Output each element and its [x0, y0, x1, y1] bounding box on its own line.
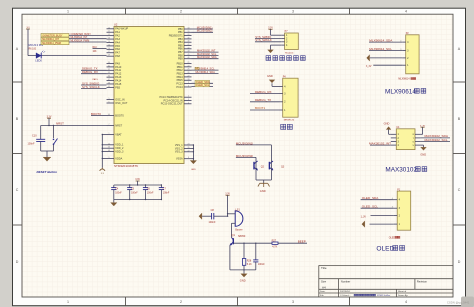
svg-text:Revision: Revision — [417, 280, 428, 284]
svg-text:15: 15 — [108, 44, 110, 46]
svg-text:47: 47 — [188, 150, 190, 152]
svg-text:SYS_SWCLK: SYS_SWCLK — [255, 38, 272, 42]
svg-text:OLED_SCL: OLED_SCL — [196, 83, 210, 87]
svg-text:RESET Button: RESET Button — [37, 170, 58, 174]
svg-text:13: 13 — [108, 38, 110, 40]
svg-text:MLX90614_INT: MLX90614_INT — [42, 38, 59, 41]
svg-text:4: 4 — [405, 300, 407, 304]
svg-text:12: 12 — [108, 34, 110, 36]
svg-text:4: 4 — [188, 102, 189, 104]
svg-text:MLX90614: MLX90614 — [398, 79, 410, 81]
svg-text:17: 17 — [108, 51, 110, 53]
svg-text:R27: R27 — [272, 239, 277, 242]
svg-text:Buzzer: Buzzer — [235, 228, 242, 231]
svg-text:43: 43 — [188, 51, 190, 53]
svg-text:MLX90614_PWM: MLX90614_PWM — [71, 39, 90, 42]
svg-text:37: 37 — [108, 79, 110, 81]
svg-text:OLED_SCL: OLED_SCL — [362, 205, 378, 209]
svg-text:PA8: PA8 — [115, 55, 120, 58]
svg-text:2: 2 — [188, 96, 189, 98]
svg-text:44: 44 — [108, 114, 110, 116]
svg-text:10: 10 — [108, 27, 110, 29]
svg-text:11: 11 — [108, 31, 110, 33]
svg-text:16: 16 — [108, 48, 110, 50]
svg-text:MLX90614_SCL: MLX90614_SCL — [369, 47, 392, 51]
svg-text:100nF: 100nF — [131, 192, 138, 194]
svg-text:4: 4 — [405, 10, 407, 14]
svg-text:LS1: LS1 — [235, 208, 240, 211]
svg-text:Title: Title — [321, 266, 327, 270]
svg-text:19: 19 — [188, 31, 190, 33]
svg-text:BOOT0: BOOT0 — [115, 114, 124, 117]
svg-text:Size: Size — [321, 280, 327, 284]
svg-text:46: 46 — [188, 57, 190, 59]
svg-text:41: 41 — [188, 44, 190, 46]
svg-text:VDD_3: VDD_3 — [115, 151, 124, 154]
svg-text:CSDN @qq_5441: CSDN @qq_5441 — [447, 301, 470, 305]
svg-text:OLED: OLED — [389, 237, 396, 239]
svg-text:Drawn By:: Drawn By: — [398, 294, 408, 297]
svg-text:GND: GND — [384, 122, 390, 126]
svg-text:MLX90614_SDA: MLX90614_SDA — [196, 70, 216, 74]
svg-text:Date:: Date: — [320, 290, 326, 293]
svg-text:100nF: 100nF — [209, 221, 217, 224]
svg-text:Header4: Header4 — [285, 52, 294, 55]
svg-text:LED0: LED0 — [35, 59, 42, 63]
svg-text:GND: GND — [191, 169, 196, 171]
svg-text:MLX90614_SDA: MLX90614_SDA — [369, 38, 393, 42]
svg-text:SYS_SWCLK: SYS_SWCLK — [82, 85, 100, 89]
svg-text:3: 3 — [188, 85, 189, 87]
svg-text:MAX30102: MAX30102 — [385, 167, 417, 174]
svg-text:33: 33 — [108, 72, 110, 74]
svg-text:GND: GND — [420, 153, 426, 157]
svg-text:36: 36 — [108, 147, 110, 149]
svg-text:39: 39 — [188, 37, 190, 39]
svg-text:3: 3 — [292, 10, 294, 14]
svg-text:38: 38 — [108, 82, 110, 84]
svg-text:100nF: 100nF — [147, 192, 154, 194]
svg-text:GND: GND — [240, 278, 246, 282]
svg-text:C: C — [16, 188, 19, 192]
svg-text:A4: A4 — [322, 286, 326, 290]
svg-text:PB9: PB9 — [178, 58, 183, 61]
svg-text:26: 26 — [188, 72, 190, 74]
svg-text:STM32.SchDoc: STM32.SchDoc — [377, 295, 390, 297]
svg-text:OXIMETER_BUSY: OXIMETER_BUSY — [42, 34, 63, 37]
svg-text:DEBUG_RX: DEBUG_RX — [82, 70, 98, 74]
svg-text:14: 14 — [108, 41, 110, 43]
svg-text:1_3V: 1_3V — [361, 217, 367, 219]
svg-text:100nF: 100nF — [163, 192, 170, 194]
svg-text:VSS_3: VSS_3 — [175, 151, 183, 154]
svg-text:Number: Number — [341, 280, 350, 284]
svg-text:4.7K: 4.7K — [272, 245, 277, 248]
svg-text:30: 30 — [108, 62, 110, 64]
svg-text:100nF: 100nF — [28, 143, 36, 146]
svg-text:OLED_SDA: OLED_SDA — [362, 196, 379, 200]
svg-text:R6 100: R6 100 — [29, 48, 37, 50]
svg-text:U2: U2 — [114, 23, 118, 27]
svg-text:6: 6 — [109, 102, 110, 104]
svg-text:MAX30102_SCL: MAX30102_SCL — [425, 138, 448, 142]
svg-text:21: 21 — [188, 62, 190, 64]
svg-text:VSSA: VSSA — [176, 158, 183, 161]
svg-text:45: 45 — [188, 54, 190, 56]
svg-text:STM32F103C8T6: STM32F103C8T6 — [114, 164, 138, 168]
svg-text:1: 1 — [67, 300, 69, 304]
svg-text:OLED: OLED — [376, 246, 394, 253]
svg-text:5.1K: 5.1K — [247, 263, 252, 266]
svg-text:27: 27 — [188, 75, 190, 77]
svg-text:5: 5 — [109, 98, 110, 100]
svg-text:C:\Users\..: C:\Users\.. — [340, 294, 351, 297]
svg-text:23: 23 — [188, 144, 190, 146]
svg-text:D: D — [458, 260, 461, 264]
svg-text:BEEP: BEEP — [298, 239, 306, 243]
svg-text:VBAT: VBAT — [115, 133, 122, 136]
svg-text:MAX30102_SDA: MAX30102_SDA — [197, 55, 217, 59]
svg-text:S8050: S8050 — [238, 235, 246, 238]
svg-text:3.3V: 3.3V — [225, 194, 230, 196]
svg-text:20: 20 — [188, 34, 190, 36]
svg-text:3_3V: 3_3V — [366, 66, 372, 68]
svg-text:GND: GND — [267, 74, 273, 78]
svg-text:9: 9 — [109, 157, 110, 159]
svg-text:3.3V: 3.3V — [47, 116, 52, 118]
svg-text:22: 22 — [188, 65, 190, 67]
svg-text:C: C — [458, 188, 461, 192]
svg-text:28: 28 — [188, 79, 190, 81]
svg-text:18: 18 — [188, 28, 190, 30]
svg-text:VDDA: VDDA — [115, 157, 122, 160]
svg-text:DEBUG_TX: DEBUG_TX — [255, 98, 271, 102]
svg-text:MLX90614_PWM: MLX90614_PWM — [42, 42, 61, 45]
svg-text:D: D — [16, 260, 19, 264]
svg-text:25: 25 — [188, 69, 190, 71]
svg-text:GND: GND — [260, 189, 266, 193]
svg-text:PC15-OSC32_OUT: PC15-OSC32_OUT — [161, 103, 183, 106]
svg-text:PB3: PB3 — [115, 86, 120, 89]
svg-text:24: 24 — [108, 143, 110, 145]
svg-text:MHDR1X4: MHDR1X4 — [284, 119, 295, 121]
svg-text:3_3V: 3_3V — [420, 125, 426, 127]
svg-text:31: 31 — [108, 65, 110, 67]
svg-text:3: 3 — [292, 300, 294, 304]
svg-text:48: 48 — [108, 150, 110, 152]
svg-text:MAX30102_INT: MAX30102_INT — [369, 141, 391, 145]
svg-text:100nF: 100nF — [115, 192, 122, 194]
svg-text:2022/6/24: 2022/6/24 — [340, 291, 351, 293]
svg-text:MLX90614: MLX90614 — [385, 88, 416, 95]
svg-text:3.3V: 3.3V — [268, 28, 273, 30]
svg-text:C10: C10 — [32, 134, 37, 137]
svg-text:NRST: NRST — [115, 124, 122, 127]
svg-text:MCU3V3(N2): MCU3V3(N2) — [197, 29, 213, 33]
svg-text:42: 42 — [188, 47, 190, 49]
svg-text:32: 32 — [108, 69, 110, 71]
svg-text:3: 3 — [188, 99, 189, 101]
svg-text:3.3V: 3.3V — [135, 179, 140, 181]
svg-text:Sheet of: Sheet of — [398, 290, 407, 293]
svg-text:100nF: 100nF — [258, 263, 265, 266]
svg-text:40: 40 — [188, 41, 190, 43]
svg-text:2: 2 — [180, 300, 182, 304]
svg-text:DEBUG_RX: DEBUG_RX — [255, 90, 272, 94]
svg-text:2: 2 — [180, 10, 182, 14]
svg-text:34: 34 — [108, 76, 110, 78]
svg-text:39: 39 — [108, 86, 110, 88]
svg-text:OSC_OUT: OSC_OUT — [115, 102, 128, 105]
svg-text:29: 29 — [108, 55, 110, 57]
svg-text:2: 2 — [188, 82, 189, 84]
svg-text:10K: 10K — [93, 51, 98, 53]
svg-text:File:: File: — [320, 295, 325, 297]
svg-text:7: 7 — [109, 124, 110, 126]
svg-text:PC14: PC14 — [176, 86, 183, 89]
svg-text:35: 35 — [188, 147, 190, 149]
svg-text:BOOT1: BOOT1 — [255, 106, 266, 110]
svg-text:1: 1 — [109, 133, 110, 135]
svg-text:8: 8 — [188, 157, 189, 159]
svg-text:1: 1 — [67, 10, 69, 14]
svg-text:NRST: NRST — [56, 122, 64, 126]
